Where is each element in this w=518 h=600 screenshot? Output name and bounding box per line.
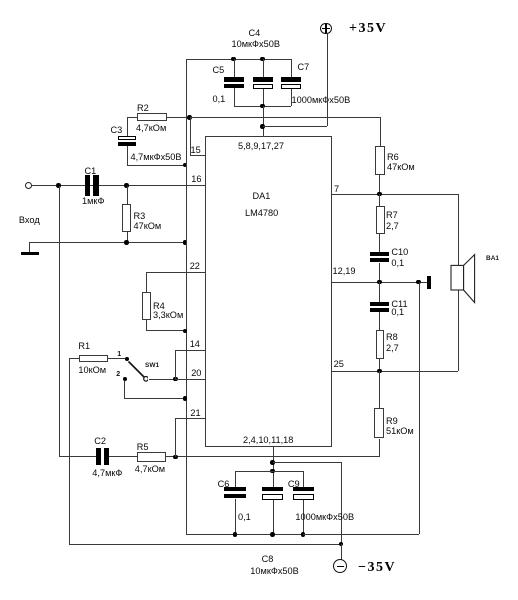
wire contact 2 to ground (0, 0, 518, 1)
label R7 (386, 210, 398, 221)
label C7 (298, 62, 310, 73)
resistor R7 (376, 206, 385, 234)
wire R4 bottom (0, 0, 518, 1)
wire pin 12,19 output (332, 282, 418, 283)
-35V supply terminal (333, 559, 347, 573)
wire +35 corner down to R6 (0, 0, 518, 1)
pin 16 number (191, 174, 201, 185)
value R6 47кОм (387, 162, 415, 173)
resistor R2 (137, 113, 167, 121)
wire C11 top stub (0, 0, 518, 1)
wire speaker top feed (0, 0, 518, 1)
value C7 1000мкФх50В (292, 95, 351, 106)
capacitor C2 (0, 0, 518, 1)
value R9 51кОм (386, 426, 414, 437)
contact 1 number (117, 351, 121, 359)
label C10 (391, 247, 408, 258)
resistor R1 (79, 355, 108, 363)
wire -35 terminal stub (0, 0, 518, 1)
value C4 10мкФх50В (232, 39, 280, 50)
wire C7 top stub (0, 0, 518, 1)
label R4 (153, 301, 165, 312)
wire R1 left to -35 bus (0, 0, 518, 1)
wire R2 left to C3 top (0, 0, 518, 1)
label C9 (288, 479, 300, 490)
capacitor C6 (0, 0, 518, 1)
node C10/C11 junction (377, 280, 382, 285)
node R8/R9 junction (377, 369, 382, 374)
capacitor C10 (0, 0, 518, 1)
wire C6 top stub (0, 0, 518, 1)
wire C3 bottom (0, 0, 518, 1)
wire R1 right to contact 1 (108, 358, 127, 359)
switch SW1 lever (126, 358, 148, 382)
label R9 (386, 416, 398, 427)
value C5 0,1 (213, 94, 226, 105)
wire pin 25 output (332, 371, 458, 372)
value R4 3,3кОм (153, 310, 183, 321)
resistor R3 (122, 204, 131, 232)
wire input to pin 16 (32, 185, 205, 186)
resistor R8 (376, 330, 385, 359)
label R2 (137, 103, 149, 114)
label R8 (386, 332, 398, 343)
value R7 2,7 (386, 221, 399, 232)
wire C11 to R8 (0, 0, 518, 1)
value C11 0,1 (391, 307, 404, 318)
loudspeaker BA1 (448, 252, 478, 306)
wire V+ pins vertical (0, 0, 518, 1)
node C3 ground junction (183, 163, 188, 168)
label Вход (19, 215, 40, 226)
wire C4 bottom stub (0, 0, 518, 1)
pin 12,19 number (333, 266, 356, 277)
node pin 21 junction (173, 455, 178, 460)
node bottom caps top junction (270, 469, 275, 474)
wire top caps lower bus (234, 106, 292, 107)
wire C6 bottom stub (0, 0, 518, 1)
wire ground bus (29, 242, 185, 243)
wire R7 to C10 (0, 0, 518, 1)
wire pin 21 (0, 0, 518, 1)
value R8 2,7 (386, 343, 399, 354)
label C6 (218, 479, 230, 490)
label DA1 (253, 191, 271, 202)
value 1мкФ (82, 196, 104, 207)
input terminal circle (25, 182, 32, 189)
wire ground stub (0, 0, 518, 1)
label R1 (78, 341, 90, 352)
wire C10 bottom stub (0, 0, 518, 1)
label C4 (249, 28, 261, 39)
pin 22 number (190, 261, 200, 272)
value C8 10мкФх50В (250, 566, 298, 577)
wire ground rail vertical (186, 59, 187, 535)
value R1 10кОм (78, 365, 106, 376)
wire C9 top stub (0, 0, 518, 1)
contact 2 number (116, 371, 120, 379)
wire pin 7 output (332, 194, 458, 195)
node C8 bottom junction (270, 532, 275, 537)
node R3 top junction (124, 183, 129, 188)
value C6 0,1 (238, 512, 251, 523)
wire V- to -35 terminal (0, 0, 518, 1)
wire C7 bottom stub (0, 0, 518, 1)
wire switch pivot to pins 14,20 (149, 379, 176, 380)
value C9 1000мкФх50В (295, 512, 354, 523)
node -35 junction (339, 542, 344, 547)
wire -35 bus (69, 544, 341, 545)
node pins 14/20 junction (173, 377, 178, 382)
wire tap to ground bus vertical (0, 0, 518, 1)
ground (21, 252, 39, 256)
output terminal tap (421, 282, 427, 283)
wire speaker bottom return (0, 0, 518, 1)
label R3 (134, 211, 146, 222)
node input junction (56, 183, 61, 188)
pin label 2,4,10,11,18 (243, 435, 293, 446)
node C9 bottom junction (301, 532, 306, 537)
pin label 5,8,9,17,27 (238, 141, 284, 152)
resistor R6 (375, 146, 385, 175)
pin 20 number (191, 368, 201, 379)
node ground rail junction (183, 240, 188, 245)
label C8 (262, 554, 274, 565)
node C6 bottom junction (233, 532, 238, 537)
value C10 0,1 (391, 258, 404, 269)
node R4 ground junction (183, 329, 188, 334)
wire R2 right to node (167, 117, 191, 118)
wire V- pins vertical (0, 0, 518, 1)
resistor R9 (374, 408, 383, 438)
resistor R5 (137, 452, 166, 462)
node C4 bottom junction (260, 104, 265, 109)
label C3 (111, 125, 123, 136)
label +35V (349, 22, 387, 36)
value C2 4,7мкФ (92, 468, 122, 479)
value C3 4,7мкФх50В (131, 152, 182, 163)
node C5 top junction (231, 57, 236, 62)
wire C5 top stub (0, 0, 518, 1)
capacitor C8 polarized (0, 0, 518, 1)
capacitor C11 (0, 0, 518, 1)
label R5 (137, 442, 149, 453)
label C2 (94, 436, 106, 447)
capacitor C4 polarized (0, 0, 518, 1)
wire R9 bottom to feedback bus (0, 0, 518, 1)
node C4 top junction (260, 57, 265, 62)
wire input node down to C2 (0, 0, 518, 1)
wire C4 top stub (0, 0, 518, 1)
label C11 (391, 299, 407, 310)
wire C2 to R5 (109, 456, 138, 457)
node R3 ground junction (124, 240, 129, 245)
wire C8 bottom stub (0, 0, 518, 1)
node switch contact 1 (125, 357, 129, 361)
resistor R4 (142, 292, 152, 320)
capacitor C9 polarized (0, 0, 518, 1)
capacitor C7 polarized (0, 0, 518, 1)
wire R3 top stub (0, 0, 518, 1)
wire bottom caps upper bus (235, 471, 303, 472)
pin 25 number (334, 359, 344, 370)
capacitor C1 (0, 0, 518, 1)
wire R8 bottom stub (0, 0, 518, 1)
wire R6 bottom stub (0, 0, 518, 1)
wire top caps upper bus (186, 59, 292, 60)
pin 15 number (191, 145, 201, 156)
label -35V (358, 561, 396, 575)
wire R7 top stub (0, 0, 518, 1)
pin 7 number (334, 184, 339, 195)
label C5 (213, 65, 225, 76)
wire pin 22 (0, 0, 518, 1)
node speaker tap junction (416, 280, 421, 285)
op-amp U1 DA1 LM4780 body (205, 136, 332, 447)
node +35 branch junction (260, 124, 265, 129)
capacitor C5 (0, 0, 518, 1)
value R2 4,7кОм (136, 123, 166, 134)
node V- supply junction (270, 460, 275, 465)
wire R9 top stub (0, 0, 518, 1)
wire +35 horizontal rail (190, 117, 381, 118)
label R6 (387, 152, 399, 163)
wire bottom ground bus right part (303, 534, 419, 535)
capacitor C3 (0, 0, 518, 1)
wire feedback bus R5 to R9 (166, 456, 380, 457)
pin 14 number (190, 339, 200, 350)
wire ground/caps bottom bus (186, 534, 420, 535)
node switch contact 2 (123, 377, 127, 381)
wire R3 bottom stub (0, 0, 518, 1)
wire pin 15 (0, 0, 518, 1)
label SW1 (145, 362, 159, 369)
wire C9 bottom stub (0, 0, 518, 1)
value R3 47кОм (134, 221, 162, 232)
pin 21 number (190, 408, 200, 419)
wire +35 branch to supply (0, 0, 518, 1)
label C1 (85, 166, 97, 177)
wire pin 14 (0, 0, 518, 1)
node R6/R7 junction (377, 192, 382, 197)
node pin15/R2/+35 junction (187, 115, 192, 120)
label LM4780 (245, 208, 278, 219)
+35V supply terminal (320, 23, 332, 35)
label BA1 (486, 255, 499, 262)
value R5 4,7кОм (135, 464, 165, 475)
wire C5 bottom stub (0, 0, 518, 1)
node contact2 ground junction (183, 396, 188, 401)
wire pin 20 (175, 379, 204, 380)
